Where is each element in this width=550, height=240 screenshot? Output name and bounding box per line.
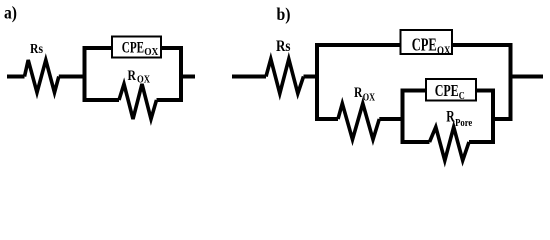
svg-text:OX: OX (144, 47, 159, 58)
svg-text:Rs: Rs (30, 42, 43, 57)
svg-text:OX: OX (437, 43, 451, 57)
svg-text:b): b) (277, 4, 291, 25)
svg-text:a): a) (4, 3, 17, 24)
svg-text:Rs: Rs (276, 38, 291, 55)
svg-text:Pore: Pore (455, 118, 473, 129)
svg-text:CPE: CPE (435, 81, 459, 100)
svg-text:OX: OX (363, 92, 375, 104)
svg-text:C: C (459, 90, 465, 102)
svg-text:OX: OX (137, 74, 150, 86)
svg-text:R: R (446, 109, 455, 126)
svg-text:R: R (354, 85, 363, 101)
svg-text:R: R (128, 68, 137, 84)
svg-text:CPE: CPE (122, 39, 144, 56)
svg-text:CPE: CPE (412, 35, 437, 55)
